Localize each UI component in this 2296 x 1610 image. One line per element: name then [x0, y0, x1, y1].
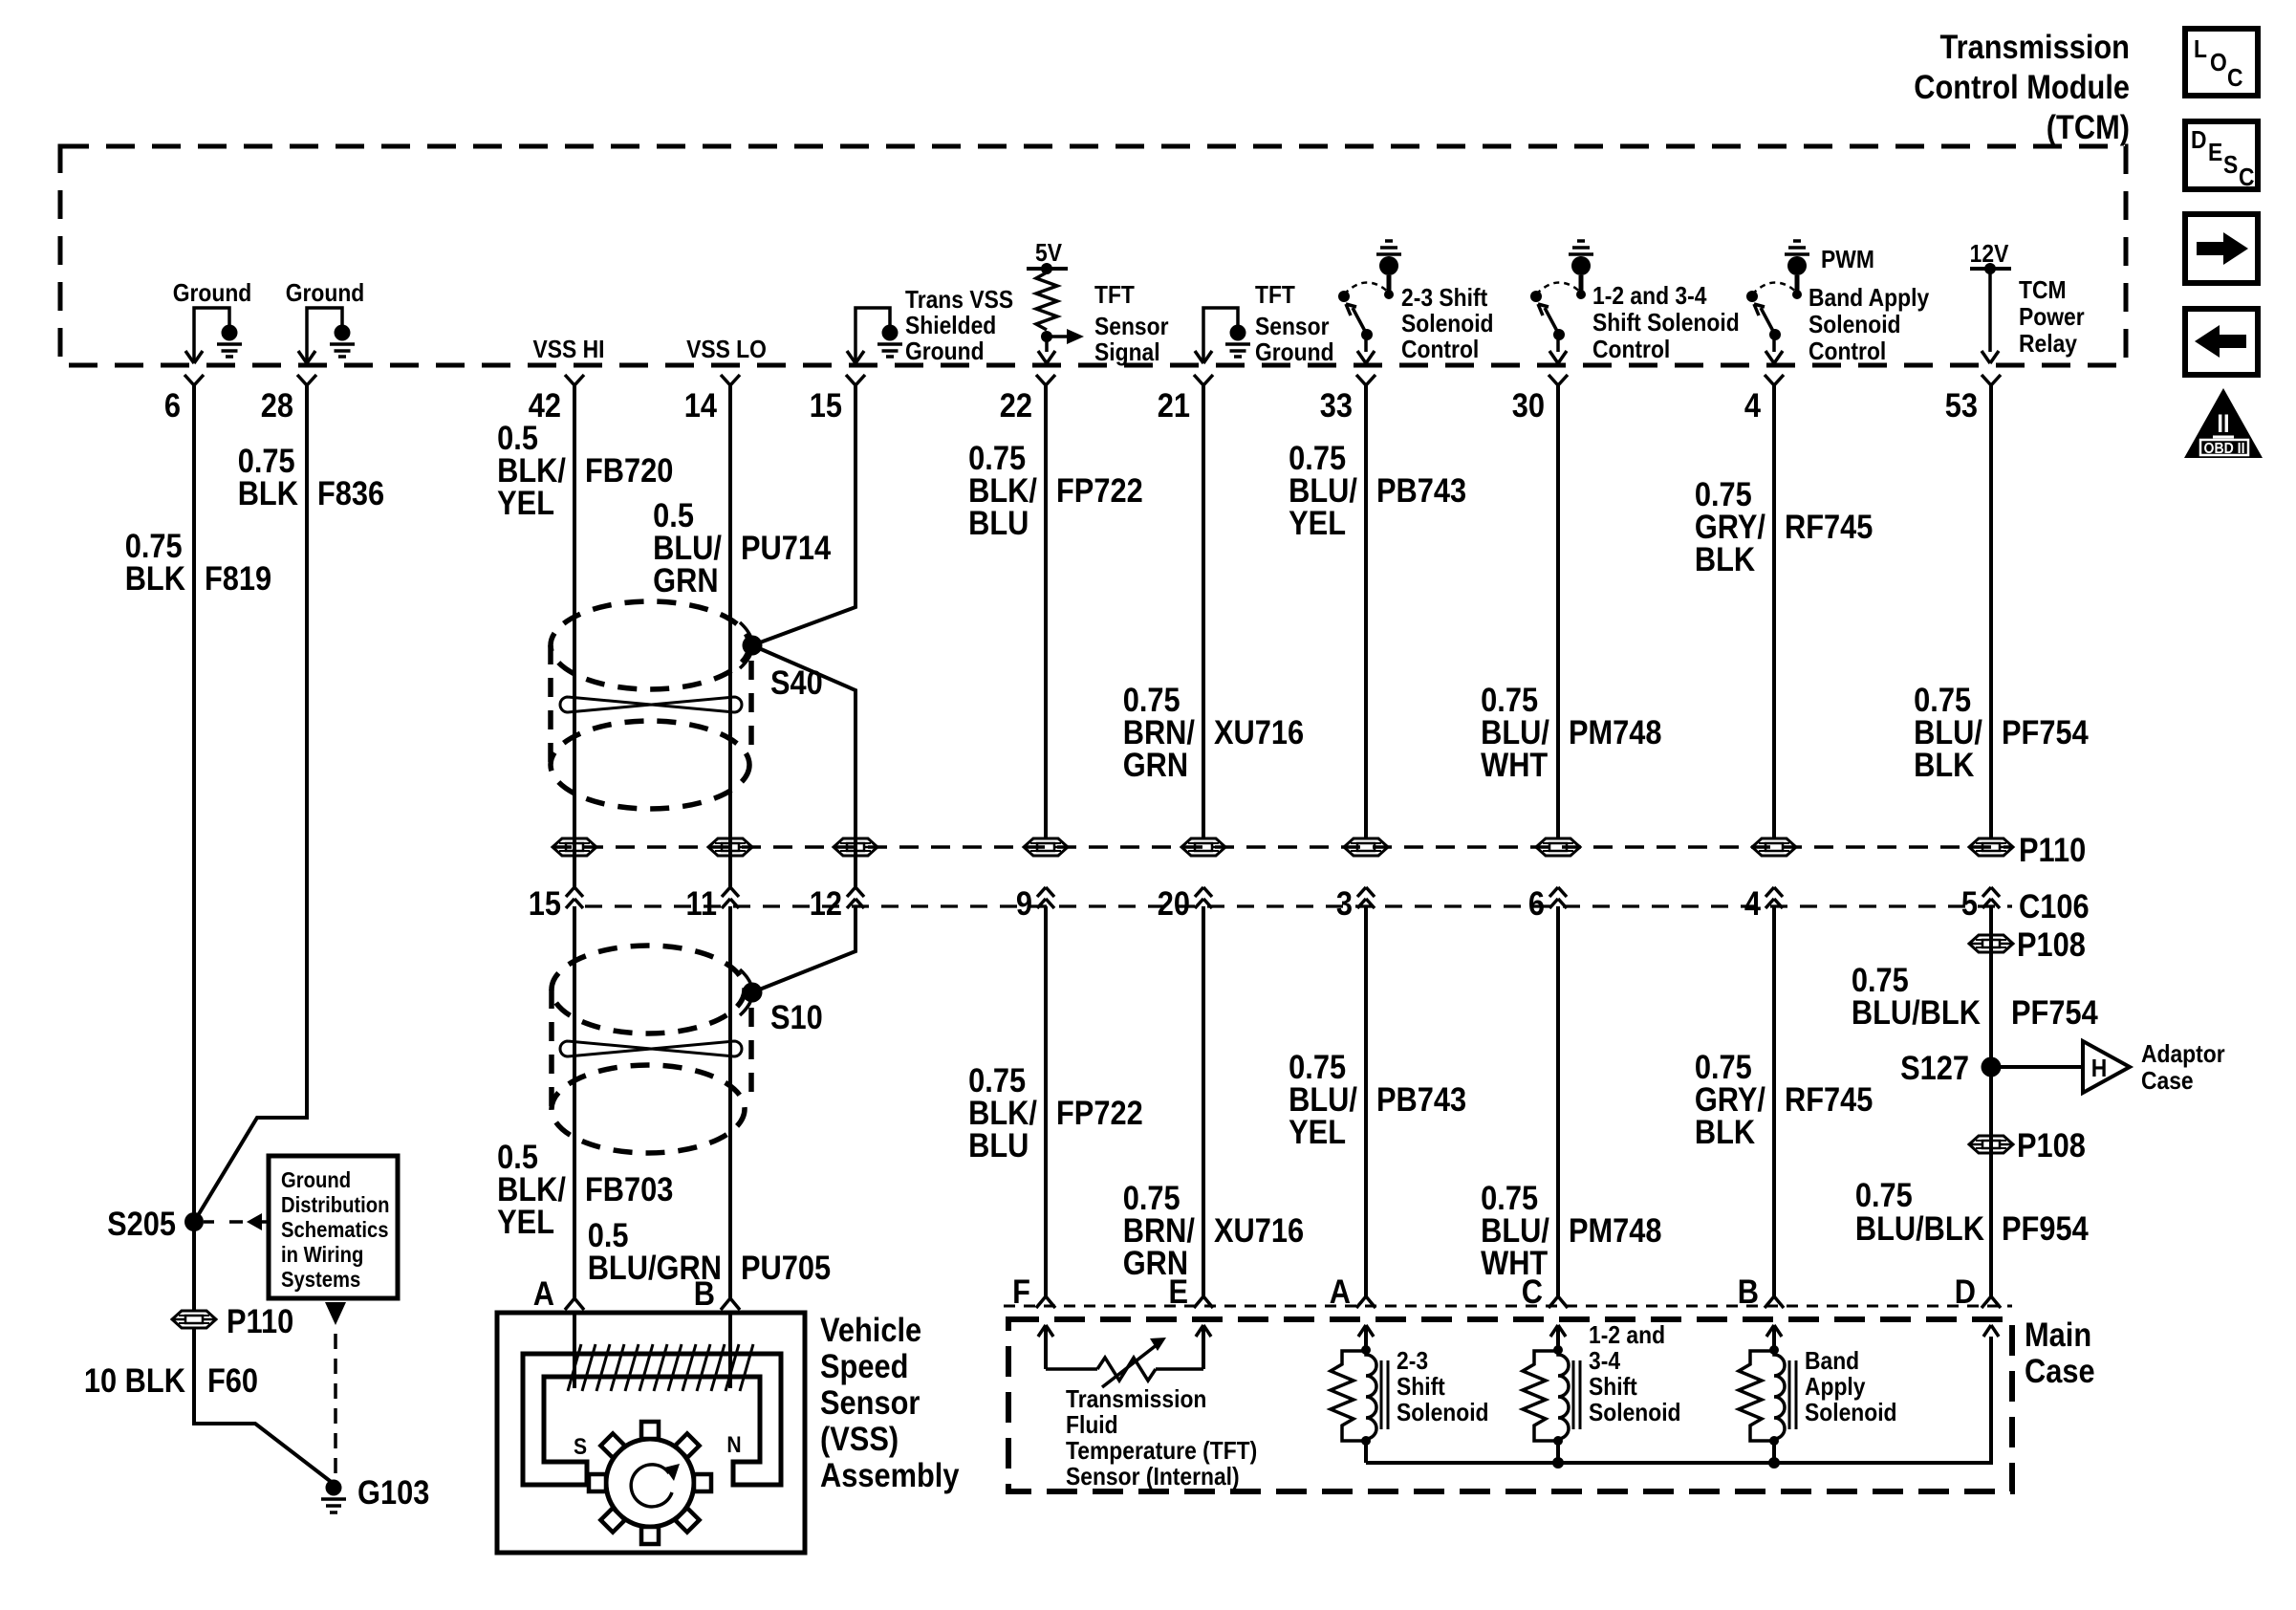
VSS assembly pin B [694, 1274, 740, 1312]
svg-text:Main: Main [2025, 1316, 2091, 1353]
main case pin F [1012, 1273, 1055, 1310]
VSS assembly pin A [533, 1274, 584, 1312]
wire F836 0.75 BLK (pin 28 to S205) [194, 385, 384, 1222]
svg-text:in Wiring: in Wiring [281, 1242, 363, 1268]
svg-text:C: C [2239, 164, 2255, 192]
TCM pin 15 shielded-ground symbol [847, 287, 1013, 366]
svg-text:PM748: PM748 [1569, 1211, 1662, 1249]
P110 pass-through connector row [552, 845, 2012, 849]
svg-text:FB703: FB703 [585, 1170, 673, 1207]
svg-text:BLU: BLU [968, 504, 1029, 541]
wire PU705 0.5 BLU/GRN (C106-11 to VSS B) [588, 906, 831, 1298]
svg-text:21: 21 [1158, 386, 1190, 424]
wire PB743 lower 0.75 BLU/YEL (C106-3 to main case A) [1289, 906, 1466, 1298]
svg-text:15: 15 [529, 884, 561, 922]
svg-text:PU714: PU714 [741, 529, 832, 566]
P110 connector at x=1630 [1536, 838, 1580, 856]
C106 pin 4 chevron [1744, 884, 1783, 922]
svg-text:E: E [1168, 1273, 1188, 1310]
P110 connector at x=601 [552, 838, 596, 856]
splice S127 and adaptor case tap [1900, 1041, 2225, 1096]
splice S10 [743, 983, 823, 1036]
svg-text:Adaptor: Adaptor [2141, 1041, 2225, 1069]
svg-text:(VSS): (VSS) [820, 1420, 899, 1457]
svg-text:A: A [533, 1274, 554, 1312]
svg-text:VSS HI: VSS HI [533, 337, 605, 364]
svg-text:Temperature (TFT): Temperature (TFT) [1066, 1438, 1257, 1466]
C106 pin 5 chevron [1961, 884, 2000, 922]
ground distribution schematics note box [269, 1156, 398, 1298]
VSS pickup coil winding [568, 1313, 753, 1391]
svg-text:BLK: BLK [125, 559, 185, 597]
svg-text:Ground: Ground [281, 1167, 351, 1193]
LOC legend box [2185, 29, 2258, 96]
TCM pin 53 12V TCM power relay symbol [1970, 241, 2085, 363]
svg-text:3: 3 [1336, 884, 1353, 922]
DESC legend box [2185, 121, 2258, 191]
left arrow legend box [2185, 309, 2258, 375]
TCM pin 30 1-2 and 3-4 shift solenoid control switch [1530, 241, 1740, 363]
svg-text:RF745: RF745 [1785, 1080, 1873, 1118]
svg-text:YEL: YEL [1289, 504, 1346, 541]
TCM pin 33 2-3 shift solenoid control switch [1338, 241, 1494, 363]
solenoid return bus to main case pin D [1366, 1325, 1999, 1469]
magnet pole labels S and N [574, 1432, 742, 1460]
C106 pin 9 chevron [1016, 884, 1054, 922]
upper twisted pair shield [551, 601, 752, 809]
TCM pin 42 connector chevron and number [529, 375, 584, 424]
wire PM748 lower 0.75 BLU/WHT (C106-6 to main case C) [1481, 906, 1661, 1298]
svg-text:PB743: PB743 [1376, 471, 1466, 509]
svg-text:H: H [2091, 1055, 2108, 1083]
C106 pin 11 chevron [685, 884, 739, 922]
svg-text:Shift: Shift [1397, 1374, 1445, 1402]
svg-text:Transmission: Transmission [1940, 28, 2130, 65]
band apply solenoid [1739, 1325, 1897, 1463]
wire XU716 lower 0.75 BRN/GRN (C106-20 to main case E) [1123, 906, 1304, 1298]
svg-text:PU705: PU705 [741, 1249, 831, 1286]
svg-text:Schematics: Schematics [281, 1217, 388, 1243]
svg-text:5: 5 [1961, 884, 1978, 922]
svg-text:S: S [574, 1434, 587, 1460]
svg-text:C: C [2227, 65, 2243, 93]
lower twisted pair shield [552, 946, 752, 1153]
svg-text:Sensor: Sensor [820, 1383, 921, 1421]
svg-text:RF745: RF745 [1785, 508, 1873, 545]
svg-text:PF754: PF754 [2002, 713, 2089, 751]
svg-text:N: N [726, 1432, 741, 1458]
wire drain pin 15 to S40 [752, 385, 856, 838]
TCM pin 14 connector chevron and number [684, 375, 740, 424]
TCM pin 22 connector chevron and number [1000, 375, 1055, 424]
svg-text:Distribution: Distribution [281, 1192, 390, 1218]
2-3 shift solenoid [1331, 1325, 1489, 1463]
svg-text:Vehicle: Vehicle [820, 1311, 921, 1348]
svg-text:P108: P108 [2017, 925, 2086, 963]
wire PM748 0.75 BLU/WHT (pin 30) [1481, 385, 1661, 838]
svg-text:L: L [2194, 36, 2207, 64]
svg-text:Systems: Systems [281, 1267, 360, 1293]
P110 connector at x=764 [708, 838, 752, 856]
VSS assembly label [820, 1311, 960, 1493]
svg-text:Ground: Ground [173, 280, 252, 308]
svg-text:10 BLK: 10 BLK [84, 1361, 185, 1399]
wire RF745 lower 0.75 GRY/BLK (C106-4 to main case B) [1695, 906, 1874, 1298]
svg-text:Solenoid: Solenoid [1809, 312, 1901, 339]
svg-text:Power: Power [2019, 304, 2085, 332]
svg-text:BLK: BLK [1695, 1113, 1755, 1150]
svg-text:O: O [2210, 50, 2227, 77]
svg-text:B: B [694, 1274, 715, 1312]
C106 label [2019, 887, 2090, 925]
wire XU716 0.75 BRN/GRN (pin 21) [1123, 385, 1304, 838]
TCM pin 4 connector chevron and number [1744, 375, 1784, 424]
svg-text:PWM: PWM [1821, 247, 1874, 274]
svg-text:D: D [2191, 127, 2207, 155]
P110 label [2019, 831, 2086, 868]
vehicle speed sensor assembly box [497, 1313, 805, 1553]
svg-text:S127: S127 [1900, 1049, 1969, 1086]
svg-text:1-2 and 3-4: 1-2 and 3-4 [1592, 283, 1707, 311]
svg-text:5V: 5V [1035, 240, 1063, 268]
svg-text:E: E [2208, 140, 2222, 167]
svg-text:VSS LO: VSS LO [686, 337, 767, 364]
TCM pin 33 connector chevron and number [1320, 375, 1375, 424]
svg-text:C106: C106 [2019, 887, 2090, 925]
P110 connector at x=1259 [1181, 838, 1225, 856]
VSS HI label [533, 337, 605, 364]
right arrow legend box [2185, 214, 2258, 283]
TCM module dashed boundary [60, 146, 2126, 365]
svg-text:TCM: TCM [2019, 277, 2067, 305]
svg-text:P110: P110 [2019, 831, 2086, 868]
svg-text:1-2 and: 1-2 and [1589, 1322, 1665, 1350]
svg-text:2-3: 2-3 [1397, 1348, 1428, 1376]
svg-text:XU716: XU716 [1214, 713, 1304, 751]
svg-text:12: 12 [810, 884, 842, 922]
wire PF754 0.75 BLU/BLK (pin 53) [1914, 385, 2089, 838]
splice S205 [107, 1205, 204, 1242]
svg-text:6: 6 [164, 386, 181, 424]
svg-text:YEL: YEL [497, 1203, 554, 1240]
wire F819 0.75 BLK (pin 6 to S205) [125, 385, 271, 1222]
svg-text:Solenoid: Solenoid [1805, 1400, 1897, 1427]
svg-text:Trans VSS: Trans VSS [905, 287, 1013, 315]
ground G103 [321, 1473, 429, 1512]
svg-text:S: S [2223, 152, 2238, 180]
svg-text:S40: S40 [770, 664, 823, 701]
svg-text:F: F [1012, 1273, 1030, 1310]
TCM pin 6 internal ground symbol [173, 280, 252, 363]
svg-text:Control: Control [1592, 337, 1670, 364]
svg-text:S205: S205 [107, 1205, 176, 1242]
svg-text:WHT: WHT [1481, 746, 1548, 783]
svg-text:30: 30 [1512, 386, 1545, 424]
svg-text:BLK: BLK [1695, 540, 1755, 577]
svg-text:Sensor (Internal): Sensor (Internal) [1066, 1464, 1240, 1491]
svg-text:Shielded: Shielded [905, 313, 996, 340]
svg-text:Shift: Shift [1589, 1374, 1637, 1402]
svg-text:Sensor: Sensor [1255, 314, 1330, 341]
svg-text:Ground: Ground [286, 280, 365, 308]
TCM pin 4 PWM band apply solenoid control switch [1746, 241, 1930, 365]
svg-text:Shift Solenoid: Shift Solenoid [1592, 310, 1740, 337]
svg-text:20: 20 [1158, 884, 1190, 922]
svg-text:XU716: XU716 [1214, 1211, 1304, 1249]
svg-text:Signal: Signal [1094, 339, 1160, 367]
svg-text:33: 33 [1320, 386, 1353, 424]
wire FP722 lower 0.75 BLK/BLU (C106-9 to main case F) [968, 906, 1143, 1298]
svg-text:PF754: PF754 [2011, 993, 2098, 1031]
svg-text:D: D [1955, 1273, 1976, 1310]
svg-text:FP722: FP722 [1056, 1094, 1143, 1131]
svg-text:Case: Case [2025, 1352, 2095, 1389]
main case pin D [1955, 1273, 2001, 1310]
P108 connector upper [1969, 925, 2086, 963]
C106 pin 6 chevron [1528, 884, 1567, 922]
wire F60 10 BLK (to G103) [84, 1328, 334, 1484]
C106 pin 15 chevron [529, 884, 583, 922]
svg-text:(TCM): (TCM) [2047, 108, 2130, 145]
TCM pin 28 connector chevron and number [261, 375, 316, 424]
VSS LO label [686, 337, 767, 364]
svg-text:Control Module: Control Module [1914, 68, 2130, 105]
svg-text:Control: Control [1401, 337, 1479, 364]
svg-text:0.75: 0.75 [1855, 1176, 1913, 1213]
svg-text:4: 4 [1744, 884, 1762, 922]
svg-text:II: II [2217, 410, 2229, 439]
main case pin B [1738, 1273, 1784, 1310]
dashed drop to G103 [325, 1302, 346, 1475]
svg-text:P108: P108 [2017, 1126, 2086, 1164]
C106 connector row [585, 904, 2012, 907]
main case pin A [1330, 1273, 1375, 1310]
splice S40 [743, 636, 823, 702]
1-2 and 3-4 shift solenoid [1523, 1322, 1681, 1463]
wire FP722 0.75 BLK/BLU (pin 22) [968, 385, 1143, 838]
main case dashed boundary [1008, 1319, 2012, 1491]
wire segment VSS HI between rows [573, 838, 576, 887]
svg-text:S10: S10 [770, 998, 823, 1035]
svg-text:YEL: YEL [497, 484, 554, 521]
P110 connector at x=1094 [1024, 838, 1068, 856]
svg-text:FB720: FB720 [585, 451, 673, 489]
svg-text:Band Apply: Band Apply [1809, 285, 1930, 313]
P110 connector at x=895 [834, 838, 877, 856]
main case pin E [1168, 1273, 1213, 1310]
svg-text:F819: F819 [205, 559, 271, 597]
wire FB720 0.5 BLK/YEL VSS HI (pin 42) [497, 385, 673, 838]
svg-text:F60: F60 [207, 1361, 258, 1399]
TCM pin 15 connector chevron and number [810, 375, 865, 424]
P110 connector on ground feed [172, 1222, 293, 1339]
P110 connector at x=1429 [1344, 838, 1388, 856]
svg-text:22: 22 [1000, 386, 1032, 424]
svg-text:11: 11 [685, 884, 717, 922]
svg-text:Control: Control [1809, 338, 1886, 366]
svg-text:Ground: Ground [1255, 339, 1334, 367]
C106 pin 3 chevron [1336, 884, 1375, 922]
wire PF754/PF954 chain (C106-5 to main case D) [1989, 906, 1993, 1298]
svg-text:28: 28 [261, 386, 293, 424]
wire segment drain between rows [854, 838, 857, 887]
TCM pin 21 TFT sensor ground symbol [1195, 282, 1334, 367]
TCM pin 30 connector chevron and number [1512, 375, 1568, 424]
svg-text:GRN: GRN [1123, 746, 1188, 783]
svg-text:4: 4 [1744, 386, 1762, 424]
svg-text:BLK: BLK [238, 474, 298, 511]
svg-text:GRN: GRN [653, 561, 718, 598]
wire PB743 0.75 BLU/YEL (pin 33) [1289, 385, 1466, 838]
VSS magnet yoke [523, 1354, 781, 1485]
svg-text:BLK: BLK [1914, 746, 1974, 783]
wire segment VSS LO between rows [728, 838, 732, 887]
TCM pin 53 connector chevron and number [1945, 375, 2001, 424]
svg-text:Solenoid: Solenoid [1589, 1400, 1681, 1427]
svg-text:6: 6 [1528, 884, 1545, 922]
wire FB703 0.5 BLK/YEL (C106-15 to VSS A) [497, 906, 673, 1298]
label 0.75 BLU/BLK PF954 [1855, 1176, 2089, 1247]
C106 pin 12 chevron [810, 884, 864, 922]
svg-text:BLU/BLK: BLU/BLK [1852, 993, 1981, 1031]
C106 pin 20 chevron [1158, 884, 1212, 922]
TCM pin 6 connector chevron and number [164, 375, 204, 424]
reference pointer to ground distribution note [204, 1213, 269, 1230]
TCM pin 28 internal ground symbol [286, 280, 365, 363]
label 0.75 BLU/BLK PF754 below P108 [1852, 961, 2098, 1031]
P108 connector lower [1969, 1126, 2086, 1164]
svg-text:Fluid: Fluid [1066, 1412, 1118, 1440]
main case pin C [1522, 1273, 1568, 1310]
svg-text:3-4: 3-4 [1589, 1348, 1620, 1376]
svg-text:Case: Case [2141, 1068, 2194, 1096]
wire PU714 0.5 BLU/GRN VSS LO (pin 14) [653, 385, 832, 838]
svg-text:F836: F836 [317, 474, 384, 511]
svg-text:Band: Band [1805, 1348, 1859, 1376]
svg-text:PF954: PF954 [2002, 1209, 2089, 1247]
TCM pin 21 connector chevron and number [1158, 375, 1213, 424]
OBD II symbol [2184, 388, 2263, 458]
svg-text:A: A [1330, 1273, 1351, 1310]
svg-text:YEL: YEL [1289, 1113, 1346, 1150]
svg-text:P110: P110 [227, 1302, 293, 1339]
svg-text:B: B [1738, 1273, 1759, 1310]
wire drain C106-12 to S10 [752, 906, 856, 992]
main case label [2025, 1316, 2095, 1389]
svg-text:C: C [1522, 1273, 1543, 1310]
svg-text:Ground: Ground [905, 338, 985, 366]
svg-text:Sensor: Sensor [1094, 314, 1169, 341]
svg-text:Speed: Speed [820, 1347, 908, 1384]
P110 connector at x=1856 [1752, 838, 1796, 856]
svg-text:BLU: BLU [968, 1126, 1029, 1164]
svg-text:14: 14 [684, 386, 718, 424]
svg-text:TFT: TFT [1255, 282, 1295, 310]
svg-text:Solenoid: Solenoid [1397, 1400, 1489, 1427]
svg-text:Solenoid: Solenoid [1401, 311, 1494, 338]
TFT sensor circuit inside main case [1038, 1325, 1257, 1490]
svg-text:FP722: FP722 [1056, 471, 1143, 509]
P110 connector at x=2083 [1969, 838, 2013, 856]
TCM pin 22 5V supply and TFT signal symbol [1027, 240, 1169, 367]
wire RF745 0.75 GRY/BLK (pin 4) [1695, 385, 1874, 838]
main case pin row dashed line [1004, 1305, 2012, 1308]
svg-text:53: 53 [1945, 386, 1978, 424]
TCM title [1914, 28, 2130, 145]
svg-text:PB743: PB743 [1376, 1080, 1466, 1118]
svg-text:BLU/BLK: BLU/BLK [1855, 1209, 1984, 1247]
svg-text:OBD II: OBD II [2203, 440, 2244, 457]
svg-text:Assembly: Assembly [820, 1456, 960, 1493]
svg-text:9: 9 [1016, 884, 1032, 922]
svg-text:Apply: Apply [1805, 1374, 1866, 1402]
VSS toothed reluctor wheel [589, 1422, 711, 1544]
svg-text:Transmission: Transmission [1066, 1386, 1206, 1414]
svg-text:15: 15 [810, 386, 842, 424]
svg-text:PM748: PM748 [1569, 713, 1662, 751]
svg-text:Relay: Relay [2019, 331, 2077, 359]
svg-text:2-3 Shift: 2-3 Shift [1401, 285, 1487, 313]
svg-text:G103: G103 [357, 1473, 429, 1511]
svg-text:TFT: TFT [1094, 282, 1135, 310]
